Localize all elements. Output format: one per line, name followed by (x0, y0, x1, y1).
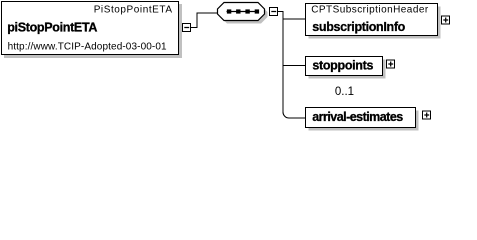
svg-text:arrival-estimates: arrival-estimates (312, 110, 403, 124)
svg-text:http://www.TCIP-Adopted-03-00-: http://www.TCIP-Adopted-03-00-01 (8, 41, 167, 52)
svg-text:CPTSubscriptionHeader: CPTSubscriptionHeader (311, 5, 429, 16)
svg-text:stoppoints: stoppoints (312, 59, 373, 73)
svg-text:0..1: 0..1 (335, 86, 354, 98)
svg-text:piStopPointETA: piStopPointETA (7, 20, 97, 34)
svg-text:PiStopPointETA: PiStopPointETA (94, 5, 173, 16)
svg-text:subscriptionInfo: subscriptionInfo (312, 20, 405, 34)
